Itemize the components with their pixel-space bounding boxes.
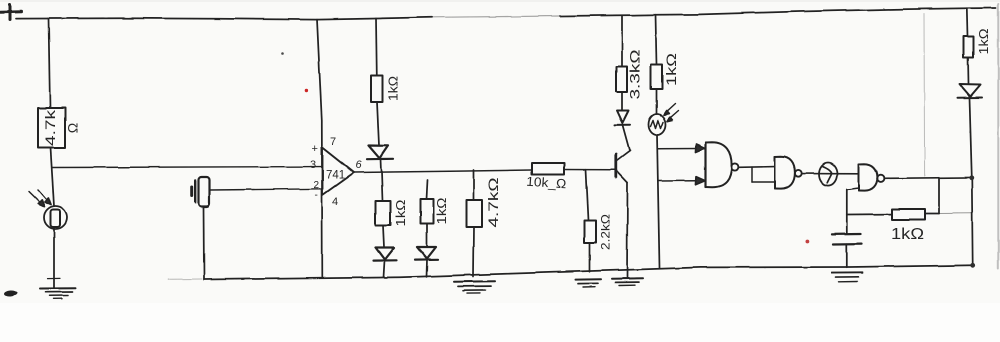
svg-text:4.7k: 4.7k <box>42 109 58 146</box>
svg-text:1kΩ: 1kΩ <box>434 197 449 224</box>
svg-text:741: 741 <box>326 170 345 182</box>
svg-text:1kΩ: 1kΩ <box>393 199 408 226</box>
svg-text:1kΩ: 1kΩ <box>386 76 401 101</box>
svg-text:4.7kΩ: 4.7kΩ <box>485 178 501 228</box>
svg-text:1kΩ: 1kΩ <box>891 226 924 243</box>
svg-text:Ω: Ω <box>65 123 81 133</box>
svg-text:7: 7 <box>330 136 336 148</box>
svg-text:6: 6 <box>356 159 363 171</box>
svg-text:4: 4 <box>332 196 338 208</box>
svg-text:10k_Ω: 10k_Ω <box>526 174 567 192</box>
svg-text:2.2kΩ: 2.2kΩ <box>599 214 613 250</box>
svg-text:3: 3 <box>310 159 316 171</box>
svg-text:1kΩ: 1kΩ <box>663 53 679 86</box>
svg-text:1kΩ: 1kΩ <box>976 28 991 54</box>
svg-text:+: + <box>312 143 318 155</box>
svg-text:-: - <box>315 190 318 201</box>
svg-text:3.3kΩ: 3.3kΩ <box>627 50 643 100</box>
